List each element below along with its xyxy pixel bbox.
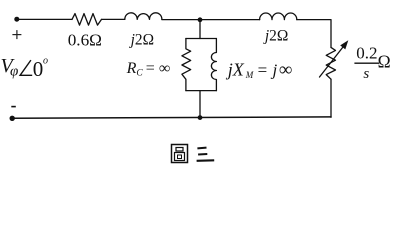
svg-text:j2Ω: j2Ω bbox=[263, 27, 288, 44]
terminal dot - (bottom left) bbox=[10, 116, 15, 121]
box top edge wire bbox=[186, 38, 217, 40]
terminal dot + (top left) bbox=[14, 17, 19, 22]
svg-text:j: j bbox=[271, 61, 278, 80]
wire from L2 to top-right corner bbox=[297, 20, 331, 48]
caption: CJK character tu (figure) bbox=[172, 145, 188, 163]
svg-text:C: C bbox=[136, 68, 143, 78]
label 0 degrees bbox=[33, 56, 48, 82]
bottom rail wire bbox=[12, 117, 331, 118]
svg-text:0.6Ω: 0.6Ω bbox=[68, 31, 102, 50]
resistor RC vertical zigzag (left branch) bbox=[182, 39, 191, 91]
svg-text:0.2: 0.2 bbox=[356, 44, 377, 63]
svg-text:j2Ω: j2Ω bbox=[129, 31, 154, 48]
inductor XM vertical coil (right branch) bbox=[211, 39, 216, 91]
svg-text:o: o bbox=[43, 56, 48, 67]
box bottom edge wire bbox=[186, 90, 217, 92]
inductor L2 j2 ohm bbox=[260, 13, 297, 20]
svg-text:φ: φ bbox=[10, 64, 18, 80]
wire stub from top node down to box bbox=[199, 20, 201, 39]
svg-text:jX: jX bbox=[226, 60, 245, 80]
svg-text:=: = bbox=[258, 61, 268, 80]
svg-text:0: 0 bbox=[33, 57, 44, 81]
minus sign bbox=[11, 106, 16, 108]
arrow of variable resistor bbox=[320, 47, 343, 77]
svg-text:R: R bbox=[126, 60, 137, 77]
label source voltage V phi bbox=[1, 55, 19, 80]
junction node bottom bbox=[198, 115, 203, 120]
svg-text:Ω: Ω bbox=[378, 52, 391, 72]
caption: CJK character san (three) bbox=[197, 148, 215, 161]
wire between resistor and first inductor bbox=[102, 18, 125, 20]
arrowhead of variable resistor bbox=[340, 40, 348, 49]
label 0.2/s ohm fraction bbox=[354, 44, 390, 83]
plus sign bbox=[12, 30, 21, 39]
inductor L1 j2 ohm bbox=[125, 13, 162, 20]
variable resistor zigzag bbox=[326, 47, 335, 79]
wire from variable resistor to bottom rail bbox=[330, 79, 332, 117]
svg-text:∞: ∞ bbox=[279, 60, 293, 81]
svg-text:s: s bbox=[363, 66, 369, 82]
junction node top bbox=[198, 17, 203, 22]
svg-text:= ∞: = ∞ bbox=[146, 60, 170, 77]
wire top-left from + terminal to resistor bbox=[17, 18, 72, 20]
wire from L1 through node to second inductor bbox=[162, 19, 260, 21]
svg-text:M: M bbox=[245, 70, 254, 80]
wire stub from box bottom to bottom rail bbox=[199, 91, 201, 118]
label RC = infinity bbox=[126, 60, 171, 78]
resistor R1 0.6 ohm zigzag bbox=[72, 14, 102, 26]
angle symbol bbox=[20, 60, 32, 75]
label jXM = j infinity bbox=[226, 60, 293, 81]
